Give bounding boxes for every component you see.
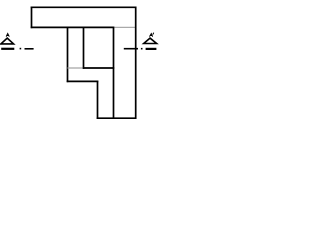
right centerline dash [124,48,138,50]
mid horizontal edge (black part) [83,67,115,69]
inner vertical edge x67 [67,27,69,83]
left cutting-plane thick stub [1,48,14,50]
left section arrow head (hollow triangle) [1,38,14,44]
top rectangle top edge [31,6,137,8]
top rectangle bottom edge (black part) [31,26,115,28]
inner vertical edge x113 [113,27,115,119]
left centerline dot [20,48,22,50]
left centerline dash [25,48,34,50]
inner vertical edge x83 [83,27,85,69]
mid horizontal edge (gray part) [68,67,84,69]
right centerline dot [141,48,143,50]
right label A' [150,33,154,36]
right outer vertical edge [135,7,137,120]
lower step horizontal edge [67,80,99,82]
right cutting-plane thick stub [146,48,157,50]
top rectangle bottom edge (gray part) [114,26,136,28]
bottom horizontal edge [97,117,137,119]
lower step vertical edge x97 [97,81,99,119]
top rectangle left edge [31,7,33,29]
right section arrow head (hollow triangle) [144,38,157,43]
left label A [6,34,9,37]
